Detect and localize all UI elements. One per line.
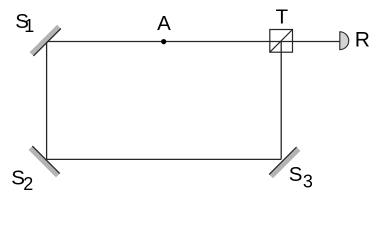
svg-text:R: R (355, 28, 370, 51)
svg-text:S: S (289, 163, 303, 186)
svg-text:3: 3 (303, 172, 313, 192)
svg-text:T: T (276, 6, 289, 29)
svg-text:2: 2 (23, 174, 33, 194)
svg-text:A: A (157, 12, 171, 35)
svg-text:1: 1 (24, 16, 34, 36)
